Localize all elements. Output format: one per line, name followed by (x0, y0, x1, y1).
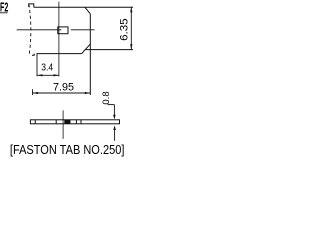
svg-text:[FASTON TAB NO.250]: [FASTON TAB NO.250] (10, 143, 125, 157)
svg-text:3.4: 3.4 (41, 62, 53, 74)
svg-text:6.35: 6.35 (118, 18, 130, 41)
svg-text:7.95: 7.95 (53, 81, 74, 93)
svg-text:0.8: 0.8 (101, 91, 111, 104)
